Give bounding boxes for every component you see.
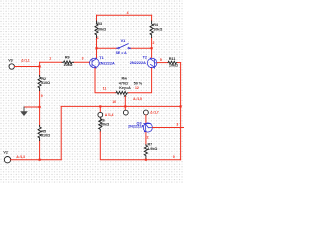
potentiometer Rw xyxy=(116,76,143,96)
svg-text:Δ /1,3: Δ /1,3 xyxy=(16,155,25,159)
resistor R11 xyxy=(168,57,178,68)
wire top rail xyxy=(97,14,152,16)
svg-text:T1: T1 xyxy=(99,56,103,60)
ground xyxy=(20,107,28,116)
resistor R2 xyxy=(38,76,50,91)
svg-text:R9: R9 xyxy=(65,56,70,60)
transistor Q3 (base top) xyxy=(128,121,152,132)
svg-text:2: 2 xyxy=(153,41,155,45)
svg-text:2N2222A: 2N2222A xyxy=(130,61,146,65)
junction ground tee xyxy=(39,106,41,108)
svg-text:0: 0 xyxy=(173,155,175,159)
svg-text:2: 2 xyxy=(147,136,149,140)
connector V3 xyxy=(8,59,14,70)
wire riser x61 xyxy=(60,106,62,159)
connector R6 top xyxy=(98,112,103,117)
svg-text:Δ /1,5: Δ /1,5 xyxy=(133,97,142,101)
svg-text:2N2222A: 2N2222A xyxy=(128,125,144,129)
svg-text:11: 11 xyxy=(103,86,107,90)
svg-text:10: 10 xyxy=(112,100,116,104)
wire left column top xyxy=(39,62,41,71)
junction V2 row xyxy=(39,159,41,161)
wire R6 down / bottom row xyxy=(100,132,180,160)
svg-text:5: 5 xyxy=(160,58,162,62)
svg-text:1: 1 xyxy=(97,36,99,40)
svg-text:Rw: Rw xyxy=(122,76,128,80)
svg-text:V1: V1 xyxy=(121,39,126,43)
svg-text:10kΩ: 10kΩ xyxy=(169,63,178,67)
wire left column / R2 R5 xyxy=(39,72,41,160)
wire middle row xyxy=(61,105,180,107)
svg-text:T2: T2 xyxy=(143,56,147,60)
svg-text:510Ω: 510Ω xyxy=(41,81,50,85)
svg-text:10kΩ: 10kΩ xyxy=(63,63,72,67)
wire T2 base to R11 xyxy=(157,62,168,64)
wire R6 stub xyxy=(99,106,101,112)
svg-text:3: 3 xyxy=(176,123,178,127)
wire T1 base row xyxy=(40,61,90,63)
wire pot wiper xyxy=(124,96,126,110)
switch V1 xyxy=(116,39,131,55)
svg-text:3: 3 xyxy=(82,57,84,61)
wire V2 row xyxy=(10,159,61,161)
svg-text:Key=A: Key=A xyxy=(119,86,131,90)
connector wiper xyxy=(123,110,128,115)
svg-text:10kΩ: 10kΩ xyxy=(97,28,106,32)
junction T2 collector / switch xyxy=(151,47,153,49)
svg-text:SE = A: SE = A xyxy=(116,51,128,55)
wire Q3 emitter xyxy=(145,132,147,144)
junction wiper/middle xyxy=(124,105,126,107)
junction T1 collector / switch xyxy=(95,47,97,49)
svg-text:510Ω: 510Ω xyxy=(41,134,50,138)
wire T1 collector column xyxy=(96,15,98,58)
wire T2 collector column xyxy=(151,15,153,58)
svg-text:R11: R11 xyxy=(169,57,176,61)
svg-text:R7: R7 xyxy=(148,142,153,146)
connector V2 xyxy=(3,150,10,163)
wire to ground xyxy=(24,106,40,108)
svg-text:2N2222A: 2N2222A xyxy=(99,62,115,66)
svg-text:50 %: 50 % xyxy=(134,81,143,85)
svg-text:V3: V3 xyxy=(8,59,13,63)
svg-text:9: 9 xyxy=(41,94,43,98)
svg-text:10kΩ: 10kΩ xyxy=(100,123,109,127)
wire V3 to column xyxy=(14,66,39,68)
svg-text:4.9kΩ: 4.9kΩ xyxy=(147,147,157,151)
svg-text:R3: R3 xyxy=(97,22,102,26)
svg-text:V2: V2 xyxy=(3,150,8,154)
svg-text:470Ω: 470Ω xyxy=(119,81,128,85)
wire R11 to right column xyxy=(178,62,181,64)
junction R7 bottom xyxy=(145,159,147,161)
svg-text:Δ /1,1: Δ /1,1 xyxy=(21,59,30,63)
wire pot to T2 emitter xyxy=(128,68,151,93)
svg-text:10kΩ: 10kΩ xyxy=(153,28,162,32)
resistor R5 xyxy=(38,126,50,141)
junction middle/right column xyxy=(180,105,182,107)
svg-text:Δ /1,7: Δ /1,7 xyxy=(150,111,159,115)
wire right column xyxy=(180,63,182,160)
resistor R7 xyxy=(144,142,157,159)
resistor R9 xyxy=(62,56,74,68)
resistor R4 xyxy=(150,21,162,38)
wire T1 emitter path xyxy=(95,68,116,93)
transistor T2 (mirrored) xyxy=(130,56,157,69)
wire Q3 base stub xyxy=(145,115,147,123)
svg-text:4: 4 xyxy=(127,11,129,15)
resistor R6 xyxy=(99,117,110,132)
junction R6/middle xyxy=(99,105,101,107)
wire Q3 collector xyxy=(153,127,185,129)
svg-text:Δ /1,4: Δ /1,4 xyxy=(105,113,114,117)
transistor T1 xyxy=(90,56,116,68)
resistor R3 xyxy=(95,21,106,38)
svg-text:12: 12 xyxy=(135,86,139,90)
svg-text:1: 1 xyxy=(49,56,51,60)
wire switch row xyxy=(97,47,152,49)
junction base column xyxy=(39,65,41,67)
connector Q3 base xyxy=(144,110,149,115)
